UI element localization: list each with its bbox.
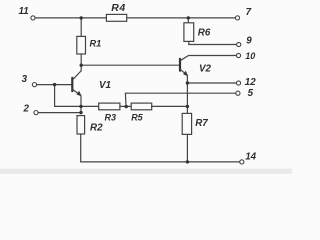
wire top rail — [35, 17, 235, 19]
junction V1 emitter / L link — [79, 105, 82, 108]
terminal pin 5 — [236, 91, 240, 95]
resistor R5 — [131, 103, 152, 110]
resistor R6 — [184, 23, 194, 42]
wire pin 2 to emitter node — [38, 112, 81, 114]
wire R7 bottom — [186, 134, 188, 162]
terminal pin 14 — [240, 160, 244, 164]
transistor V2 — [180, 56, 236, 77]
wire V1 emitter down — [80, 96, 82, 113]
junction R1 bottom / V2 base — [80, 63, 83, 66]
wire emitter to pin 12 — [187, 82, 236, 84]
svg-text:3: 3 — [22, 74, 28, 85]
svg-text:10: 10 — [245, 51, 255, 61]
junction R5 / V2 emitter / R7 — [186, 105, 189, 108]
wire R6 top stub — [187, 18, 189, 23]
terminal pin 2 — [34, 111, 38, 115]
wire R2 bottom — [80, 134, 82, 162]
wire base V1 to base V2 — [81, 64, 179, 66]
wire pin 3 to base V1 — [37, 84, 72, 86]
terminal pin 3 — [32, 83, 36, 87]
svg-text:14: 14 — [245, 151, 256, 162]
junction R3 / R5 / riser — [125, 105, 128, 108]
svg-text:V2: V2 — [199, 64, 212, 75]
svg-text:12: 12 — [245, 77, 256, 88]
svg-text:R5: R5 — [131, 112, 143, 122]
wire R3R5 junction to pin 5 — [125, 93, 235, 106]
svg-text:R3: R3 — [105, 112, 117, 122]
svg-text:7: 7 — [246, 7, 252, 18]
svg-text:5: 5 — [248, 88, 254, 99]
junction V1 base wire — [53, 83, 56, 86]
junction top rail / R6 — [187, 16, 190, 19]
junction pin2 / R2 / emitter — [79, 111, 82, 114]
svg-text:11: 11 — [19, 6, 29, 17]
resistor R2 — [77, 116, 85, 134]
wire R1 top — [80, 18, 82, 37]
terminal pin 7 — [235, 16, 239, 20]
wire V2 emitter down — [186, 76, 188, 114]
wire R1 bottom — [80, 54, 82, 65]
terminal pin 9 — [237, 42, 241, 46]
resistor R3 — [99, 103, 120, 110]
terminal pin 11 — [31, 16, 35, 20]
terminal pin 12 — [236, 81, 240, 85]
wire R3 to R5 — [120, 105, 131, 107]
svg-text:2: 2 — [23, 104, 30, 115]
resistor R7 — [182, 113, 191, 134]
svg-text:R6: R6 — [198, 28, 211, 39]
junction top rail / R1 — [80, 16, 83, 19]
terminal pin 10 — [236, 53, 240, 57]
transistor V1 — [72, 65, 81, 96]
resistor R4 — [106, 14, 126, 21]
svg-text:R1: R1 — [90, 38, 102, 48]
scan bottom shadow band — [0, 169, 292, 174]
svg-text:R4: R4 — [111, 2, 125, 14]
svg-text:9: 9 — [246, 36, 252, 47]
svg-text:R7: R7 — [195, 118, 208, 129]
wire R6 to pin 9 — [189, 41, 237, 44]
wire bottom rail — [81, 161, 240, 163]
svg-text:R2: R2 — [90, 123, 103, 134]
junction bottom rail / R7 — [186, 160, 189, 163]
resistor R1 — [77, 36, 86, 54]
svg-text:V1: V1 — [99, 80, 111, 91]
wire base junction to emitter node (L link) — [55, 85, 99, 107]
junction V2 emitter / pin 12 — [186, 81, 189, 84]
wire R5 to V2 emitter node — [152, 105, 188, 107]
